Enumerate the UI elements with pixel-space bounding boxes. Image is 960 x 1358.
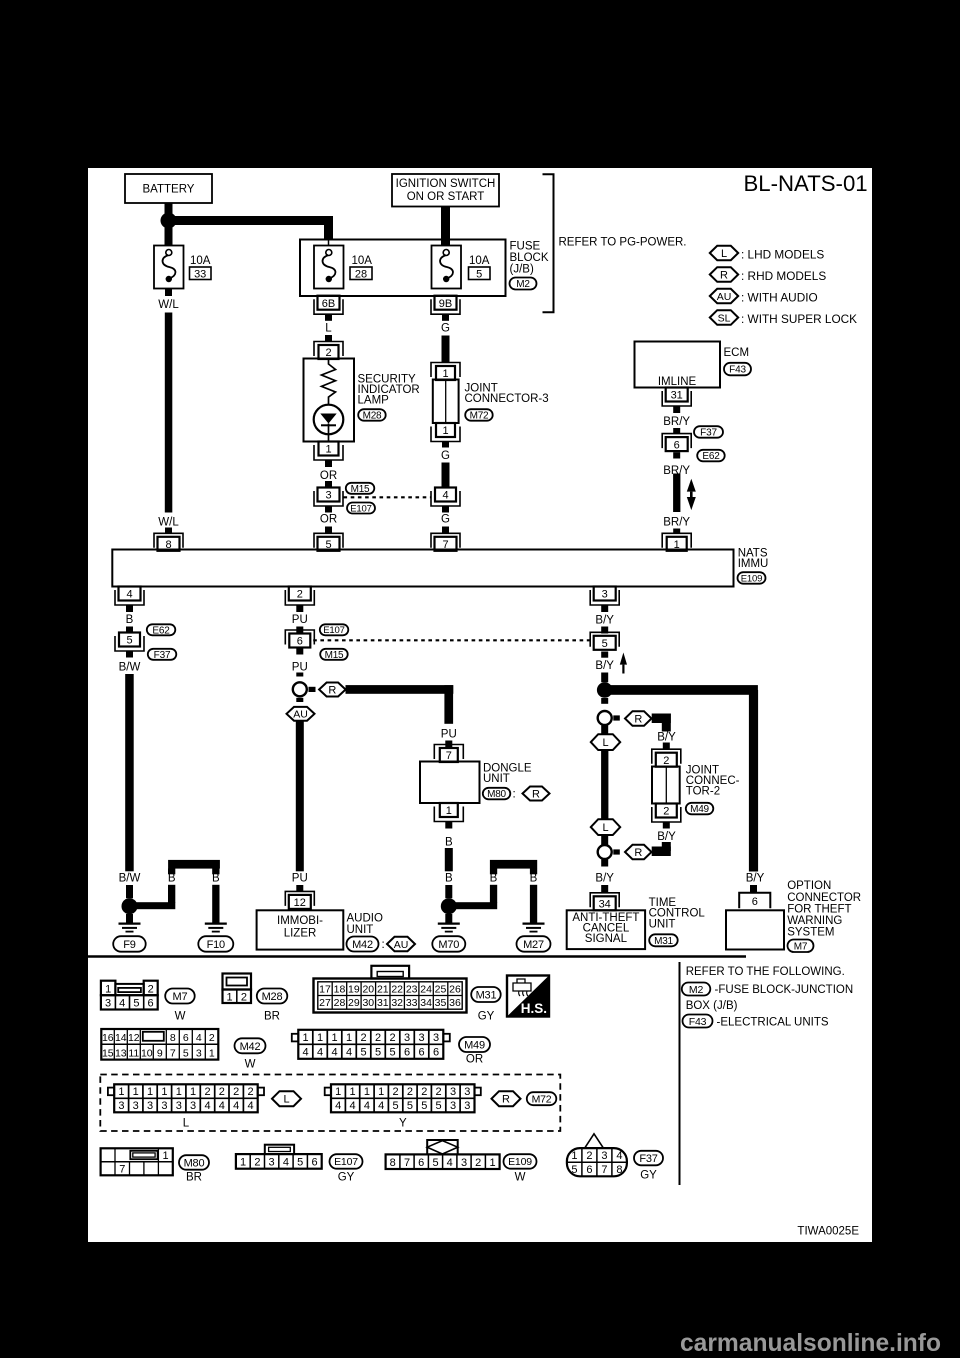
svg-text:6B: 6B	[322, 298, 335, 310]
svg-text:1: 1	[209, 1047, 215, 1059]
svg-text:F43: F43	[689, 1016, 707, 1028]
svg-text:W: W	[245, 1059, 256, 1071]
svg-text:5: 5	[571, 1164, 577, 1176]
svg-text:R: R	[532, 789, 540, 801]
svg-text:4: 4	[126, 589, 132, 601]
svg-text:2: 2	[361, 1032, 367, 1044]
svg-text:2: 2	[254, 1157, 260, 1169]
svg-text:AU: AU	[293, 709, 308, 721]
svg-text:6: 6	[586, 1164, 592, 1176]
svg-text:6: 6	[148, 997, 154, 1009]
svg-text:2: 2	[663, 806, 669, 818]
svg-text:6: 6	[183, 1032, 189, 1044]
svg-text:: RHD MODELS: : RHD MODELS	[741, 269, 826, 283]
svg-text:-FUSE BLOCK-JUNCTION: -FUSE BLOCK-JUNCTION	[715, 984, 854, 996]
svg-text:19: 19	[348, 983, 360, 995]
svg-text:3: 3	[269, 1157, 275, 1169]
svg-text:M42: M42	[352, 939, 373, 951]
svg-text:33: 33	[406, 997, 418, 1009]
svg-text:B: B	[212, 873, 220, 885]
svg-text:E107: E107	[323, 625, 344, 636]
svg-text:33: 33	[194, 268, 206, 280]
svg-text:3: 3	[325, 490, 331, 502]
svg-text:: LHD MODELS: : LHD MODELS	[741, 247, 824, 261]
svg-text:1: 1	[442, 368, 448, 380]
svg-text:1: 1	[335, 1086, 341, 1098]
svg-text:5: 5	[183, 1047, 189, 1059]
svg-text:-ELECTRICAL UNITS: -ELECTRICAL UNITS	[717, 1016, 829, 1028]
svg-text:B: B	[445, 873, 453, 885]
svg-text:26: 26	[449, 983, 461, 995]
svg-text:5: 5	[325, 539, 331, 551]
svg-text:E107: E107	[350, 503, 371, 514]
svg-text:M70: M70	[438, 939, 459, 951]
svg-text:G: G	[441, 450, 450, 462]
svg-text:5: 5	[133, 997, 139, 1009]
svg-text:REFER TO PG-POWER.: REFER TO PG-POWER.	[559, 237, 687, 249]
svg-text:W/L: W/L	[158, 299, 179, 311]
svg-text:12: 12	[128, 1032, 140, 1044]
svg-text:36: 36	[449, 997, 461, 1009]
svg-text:UNIT: UNIT	[347, 924, 374, 936]
svg-text:F9: F9	[123, 939, 136, 951]
svg-text:B: B	[445, 837, 453, 849]
svg-text:11: 11	[128, 1047, 139, 1059]
svg-text:9B: 9B	[439, 298, 452, 310]
svg-text:10A: 10A	[352, 255, 373, 267]
svg-text:5: 5	[432, 1157, 438, 1169]
svg-text:5: 5	[421, 1100, 427, 1112]
svg-text:4: 4	[332, 1047, 338, 1059]
svg-text:3: 3	[450, 1100, 456, 1112]
svg-text:35: 35	[435, 997, 447, 1009]
svg-text:3: 3	[404, 1032, 410, 1044]
svg-text:Y: Y	[399, 1118, 407, 1130]
svg-text:WARNING: WARNING	[787, 915, 842, 927]
svg-text:1: 1	[303, 1032, 309, 1044]
svg-text:CONNECTOR-3: CONNECTOR-3	[465, 393, 549, 405]
svg-text:M2: M2	[516, 279, 530, 290]
svg-text:2: 2	[475, 1157, 481, 1169]
svg-text:2: 2	[390, 1032, 396, 1044]
svg-text:2: 2	[233, 1086, 239, 1098]
svg-text:3: 3	[118, 1100, 124, 1112]
svg-text:2: 2	[247, 1086, 253, 1098]
svg-text:3: 3	[602, 589, 608, 601]
svg-text:W/L: W/L	[158, 517, 179, 529]
svg-text:2: 2	[219, 1086, 225, 1098]
svg-text:1: 1	[317, 1032, 323, 1044]
svg-text:UNIT: UNIT	[483, 773, 510, 785]
svg-text:M42: M42	[240, 1041, 261, 1053]
svg-text:6: 6	[297, 636, 303, 648]
svg-text:6: 6	[311, 1157, 317, 1169]
svg-text:3: 3	[133, 1100, 139, 1112]
svg-text:L: L	[283, 1094, 289, 1106]
svg-text:B/Y: B/Y	[595, 615, 614, 627]
svg-text:carmanualsonline.info: carmanualsonline.info	[680, 1330, 941, 1357]
svg-text:7: 7	[170, 1047, 176, 1059]
svg-text:3: 3	[196, 1047, 202, 1059]
svg-text:SYSTEM: SYSTEM	[787, 927, 834, 939]
svg-text:4: 4	[447, 1157, 453, 1169]
svg-text:ON OR START: ON OR START	[407, 191, 485, 203]
svg-text:5: 5	[375, 1047, 381, 1059]
svg-text:F43: F43	[729, 365, 746, 376]
svg-text:2: 2	[375, 1032, 381, 1044]
svg-text:B: B	[490, 873, 498, 885]
svg-text:M15: M15	[351, 484, 370, 495]
svg-text:AUDIO: AUDIO	[347, 913, 383, 925]
svg-text:F37: F37	[639, 1153, 657, 1165]
svg-text:SIGNAL: SIGNAL	[585, 933, 628, 945]
svg-text:BR: BR	[264, 1011, 280, 1023]
svg-text:PU: PU	[292, 614, 308, 626]
svg-text:BLOCK: BLOCK	[510, 252, 549, 264]
svg-text:M72: M72	[470, 411, 489, 422]
svg-text:AU: AU	[394, 939, 409, 951]
svg-text:L: L	[602, 822, 608, 834]
svg-text:3: 3	[147, 1100, 153, 1112]
svg-text:4: 4	[219, 1100, 225, 1112]
svg-text:W: W	[515, 1172, 526, 1184]
svg-text:5: 5	[390, 1047, 396, 1059]
svg-text:30: 30	[362, 997, 374, 1009]
svg-text:BR/Y: BR/Y	[663, 517, 690, 529]
svg-text:BR/Y: BR/Y	[663, 416, 690, 428]
svg-text:34: 34	[599, 899, 611, 911]
svg-text:3: 3	[433, 1032, 439, 1044]
svg-text:4: 4	[196, 1032, 202, 1044]
svg-text:GY: GY	[478, 1011, 495, 1023]
svg-text:18: 18	[334, 983, 346, 995]
svg-text:M28: M28	[262, 991, 283, 1003]
svg-text:OR: OR	[466, 1054, 483, 1066]
svg-text:E109: E109	[741, 573, 762, 584]
svg-text:3: 3	[461, 1157, 467, 1169]
svg-text:IMMU: IMMU	[738, 558, 769, 570]
svg-text:5: 5	[297, 1157, 303, 1169]
svg-text:: WITH SUPER LOCK: : WITH SUPER LOCK	[741, 312, 857, 326]
svg-text:25: 25	[435, 983, 447, 995]
svg-text:2: 2	[436, 1086, 442, 1098]
svg-text:2: 2	[421, 1086, 427, 1098]
svg-text:6: 6	[433, 1047, 439, 1059]
svg-text:4: 4	[335, 1100, 341, 1112]
svg-text:M49: M49	[690, 804, 709, 815]
svg-text:2: 2	[204, 1086, 210, 1098]
svg-text:H.S.: H.S.	[521, 1001, 547, 1016]
svg-text:4: 4	[378, 1100, 384, 1112]
svg-text:4: 4	[119, 997, 125, 1009]
svg-text:M15: M15	[325, 650, 344, 661]
svg-text:2: 2	[393, 1086, 399, 1098]
svg-text:4: 4	[303, 1047, 309, 1059]
svg-text:1: 1	[378, 1086, 384, 1098]
svg-text:4: 4	[616, 1150, 622, 1162]
svg-text:3: 3	[419, 1032, 425, 1044]
svg-text:1: 1	[190, 1086, 196, 1098]
svg-text:4: 4	[364, 1100, 370, 1112]
svg-text:FUSE: FUSE	[510, 241, 541, 253]
svg-text:B/W: B/W	[119, 662, 141, 674]
svg-text:31: 31	[377, 997, 389, 1009]
svg-text:1: 1	[332, 1032, 338, 1044]
svg-text:17: 17	[319, 983, 331, 995]
svg-text:B/Y: B/Y	[657, 831, 676, 843]
svg-text:2: 2	[325, 347, 331, 359]
svg-text:1: 1	[163, 1150, 169, 1162]
svg-text:B: B	[168, 873, 176, 885]
svg-text:M28: M28	[363, 411, 382, 422]
svg-text:M80: M80	[487, 789, 506, 800]
svg-text:PU: PU	[441, 729, 457, 741]
svg-text:2: 2	[663, 755, 669, 767]
svg-text:6: 6	[674, 439, 680, 451]
svg-text:BATTERY: BATTERY	[143, 184, 195, 196]
svg-text:21: 21	[377, 983, 389, 995]
svg-text:1: 1	[105, 983, 111, 995]
svg-text:28: 28	[355, 268, 367, 280]
svg-text:BOX (J/B): BOX (J/B)	[686, 1000, 738, 1012]
svg-text:E62: E62	[702, 451, 720, 462]
svg-text:G: G	[441, 514, 450, 526]
svg-text:GY: GY	[640, 1170, 657, 1182]
svg-text:(J/B): (J/B)	[510, 264, 534, 276]
svg-text:OR: OR	[320, 470, 337, 482]
svg-text:4: 4	[346, 1047, 352, 1059]
svg-text:LAMP: LAMP	[358, 395, 390, 407]
svg-text:REFER TO THE FOLLOWING.: REFER TO THE FOLLOWING.	[686, 966, 845, 978]
svg-text:E62: E62	[152, 625, 170, 636]
svg-text:TIWA0025E: TIWA0025E	[797, 1226, 859, 1238]
svg-text:M80: M80	[184, 1158, 205, 1170]
svg-text:13: 13	[115, 1047, 127, 1059]
svg-text:M7: M7	[173, 991, 188, 1003]
svg-text:6: 6	[752, 896, 758, 908]
svg-text:10: 10	[141, 1047, 153, 1059]
svg-text:5: 5	[476, 268, 482, 280]
svg-text:L: L	[183, 1118, 190, 1130]
svg-text:R: R	[634, 714, 642, 726]
svg-text:AU: AU	[717, 291, 732, 303]
svg-text:B/Y: B/Y	[746, 873, 765, 885]
svg-text:3: 3	[161, 1100, 167, 1112]
svg-text:B: B	[126, 614, 134, 626]
svg-text:9: 9	[157, 1047, 163, 1059]
svg-text:1: 1	[571, 1150, 577, 1162]
svg-text:CONNECTOR: CONNECTOR	[787, 892, 861, 904]
svg-text:1: 1	[147, 1086, 153, 1098]
svg-text:7: 7	[404, 1157, 410, 1169]
svg-text:3: 3	[105, 997, 111, 1009]
svg-text:F37: F37	[700, 428, 717, 439]
svg-text:5: 5	[407, 1100, 413, 1112]
svg-text:1: 1	[325, 444, 331, 456]
svg-text:27: 27	[319, 997, 331, 1009]
svg-text:6: 6	[418, 1157, 424, 1169]
svg-text:1: 1	[176, 1086, 182, 1098]
svg-text:1: 1	[489, 1157, 495, 1169]
svg-text:R: R	[502, 1094, 510, 1106]
svg-text:1: 1	[446, 805, 452, 817]
svg-text:6: 6	[404, 1047, 410, 1059]
svg-text:3: 3	[190, 1100, 196, 1112]
svg-text:1: 1	[240, 1157, 246, 1169]
svg-text:20: 20	[362, 983, 374, 995]
svg-text:10A: 10A	[190, 255, 211, 267]
svg-text:16: 16	[102, 1032, 114, 1044]
svg-text:BR: BR	[186, 1172, 202, 1184]
svg-text:10A: 10A	[469, 255, 490, 267]
svg-text:F37: F37	[154, 650, 171, 661]
svg-text:32: 32	[391, 997, 403, 1009]
svg-text::: :	[382, 939, 385, 951]
svg-text:M2: M2	[689, 984, 704, 996]
svg-text:IMLINE: IMLINE	[658, 376, 697, 388]
svg-text:E107: E107	[334, 1156, 358, 1168]
svg-text:4: 4	[233, 1100, 239, 1112]
svg-text:L: L	[721, 248, 727, 260]
svg-text:R: R	[720, 270, 728, 282]
svg-text:7: 7	[442, 539, 448, 551]
svg-text:29: 29	[348, 997, 360, 1009]
svg-text:BL-NATS-01: BL-NATS-01	[744, 171, 868, 196]
svg-text:14: 14	[115, 1032, 127, 1044]
svg-text:OPTION: OPTION	[787, 880, 831, 892]
svg-text:M31: M31	[654, 936, 673, 947]
svg-text:23: 23	[406, 983, 418, 995]
svg-text:5: 5	[393, 1100, 399, 1112]
svg-text:4: 4	[442, 490, 448, 502]
svg-text:1: 1	[227, 991, 233, 1003]
svg-text:1: 1	[133, 1086, 139, 1098]
svg-text:22: 22	[391, 983, 403, 995]
svg-text:5: 5	[436, 1100, 442, 1112]
svg-text:FOR THEFT: FOR THEFT	[787, 903, 851, 915]
svg-text:SL: SL	[718, 312, 731, 324]
svg-text:B/W: B/W	[119, 873, 141, 885]
svg-text:M72: M72	[532, 1094, 552, 1106]
svg-text:M31: M31	[476, 990, 497, 1002]
svg-text:3: 3	[450, 1086, 456, 1098]
svg-text:PU: PU	[292, 662, 308, 674]
svg-text:15: 15	[102, 1047, 114, 1059]
svg-text:5: 5	[361, 1047, 367, 1059]
svg-text:E109: E109	[508, 1156, 532, 1168]
svg-text:: WITH AUDIO: : WITH AUDIO	[741, 290, 818, 304]
svg-text::: :	[513, 788, 516, 800]
svg-text:8: 8	[170, 1032, 176, 1044]
svg-text:1: 1	[349, 1086, 355, 1098]
svg-text:L: L	[602, 737, 608, 749]
svg-text:M7: M7	[794, 941, 808, 952]
svg-text:TOR-2: TOR-2	[686, 786, 720, 798]
svg-text:3: 3	[464, 1086, 470, 1098]
svg-text:B/Y: B/Y	[595, 660, 614, 672]
svg-text:7: 7	[119, 1163, 125, 1175]
svg-text:4: 4	[247, 1100, 253, 1112]
svg-text:B/Y: B/Y	[595, 873, 614, 885]
svg-text:PU: PU	[292, 873, 308, 885]
svg-text:M49: M49	[464, 1040, 485, 1052]
svg-text:F10: F10	[207, 939, 225, 951]
svg-text:2: 2	[407, 1086, 413, 1098]
svg-text:IMMOBI-: IMMOBI-	[277, 915, 323, 927]
svg-text:31: 31	[671, 390, 683, 402]
svg-text:1: 1	[118, 1086, 124, 1098]
svg-text:1: 1	[346, 1032, 352, 1044]
svg-text:4: 4	[283, 1157, 289, 1169]
svg-text:2: 2	[297, 589, 303, 601]
svg-text:28: 28	[334, 997, 346, 1009]
svg-text:1: 1	[674, 539, 680, 551]
svg-text:1: 1	[442, 425, 448, 437]
svg-text:2: 2	[241, 991, 247, 1003]
svg-text:3: 3	[464, 1100, 470, 1112]
svg-text:2: 2	[148, 983, 154, 995]
svg-text:8: 8	[390, 1157, 396, 1169]
svg-text:B/Y: B/Y	[657, 731, 676, 743]
svg-text:4: 4	[349, 1100, 355, 1112]
svg-text:2: 2	[209, 1032, 215, 1044]
svg-text:OR: OR	[320, 514, 337, 526]
svg-text:6: 6	[419, 1047, 425, 1059]
svg-text:12: 12	[294, 897, 306, 909]
svg-text:8: 8	[616, 1164, 622, 1176]
svg-text:L: L	[325, 323, 332, 335]
svg-text:R: R	[328, 685, 336, 697]
svg-text:3: 3	[176, 1100, 182, 1112]
svg-text:5: 5	[602, 638, 608, 650]
svg-text:3: 3	[601, 1150, 607, 1162]
svg-text:UNIT: UNIT	[649, 918, 676, 930]
svg-text:5: 5	[126, 635, 132, 647]
svg-text:ECM: ECM	[724, 347, 750, 359]
svg-text:4: 4	[317, 1047, 323, 1059]
svg-text:4: 4	[204, 1100, 210, 1112]
svg-text:M27: M27	[523, 939, 544, 951]
svg-text:GY: GY	[338, 1172, 355, 1184]
svg-text:1: 1	[364, 1086, 370, 1098]
svg-text:34: 34	[420, 997, 432, 1009]
svg-text:B: B	[530, 873, 538, 885]
svg-text:R: R	[634, 847, 642, 859]
svg-text:W: W	[175, 1011, 186, 1023]
svg-text:LIZER: LIZER	[284, 928, 317, 940]
svg-text:24: 24	[420, 983, 432, 995]
svg-text:G: G	[441, 323, 450, 335]
svg-text:2: 2	[586, 1150, 592, 1162]
svg-text:7: 7	[446, 750, 452, 762]
svg-text:7: 7	[601, 1164, 607, 1176]
svg-text:IGNITION SWITCH: IGNITION SWITCH	[396, 178, 496, 190]
svg-text:1: 1	[161, 1086, 167, 1098]
